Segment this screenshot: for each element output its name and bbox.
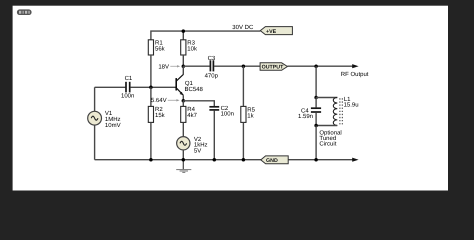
wire output node down to tuned circuit: [315, 66, 317, 97]
capacitor C1: [121, 75, 134, 99]
svg-text:1k: 1k: [247, 112, 254, 119]
node D output node: [242, 64, 246, 68]
flag GND: [261, 156, 288, 164]
label Optional Tuned Circuit: [319, 130, 341, 148]
svg-text:+VE: +VE: [266, 29, 277, 35]
wire top supply rail: [151, 31, 260, 40]
wire R5 bottom to ground rail: [242, 122, 244, 159]
svg-text:RF Output: RF Output: [341, 71, 369, 78]
source V1: [88, 87, 121, 159]
resistor R5: [241, 106, 256, 122]
wire emitter to C2: [183, 101, 214, 106]
wire R3 top stub: [182, 31, 184, 40]
wire C2 to ground rail: [213, 111, 215, 160]
svg-text:5.64V: 5.64V: [151, 97, 167, 104]
wire node C to C3: [183, 65, 210, 67]
wire R3 bottom to node C: [182, 55, 184, 66]
node emitter: [182, 99, 186, 103]
svg-text:100n: 100n: [121, 92, 134, 99]
svg-text:470p: 470p: [205, 72, 219, 79]
resistor R3: [181, 40, 198, 56]
svg-text:1.59n: 1.59n: [298, 113, 313, 120]
capacitor C2: [209, 105, 234, 118]
svg-text:15.9u: 15.9u: [344, 102, 359, 109]
rail junction dots: [149, 158, 153, 162]
node output tee: [314, 64, 318, 68]
flag OUTPUT: [260, 63, 287, 71]
svg-text:15k: 15k: [155, 112, 166, 119]
svg-text:GND: GND: [266, 158, 278, 164]
svg-text:C3: C3: [208, 55, 216, 62]
svg-text:10k: 10k: [187, 45, 198, 52]
annotation 5.64V: [151, 97, 180, 104]
wire C3 to OUTPUT flag: [214, 65, 260, 67]
svg-text:18V: 18V: [158, 63, 169, 70]
inductor L1: [316, 96, 359, 126]
wire bottom ground rail: [95, 159, 353, 161]
svg-text:5V: 5V: [194, 147, 201, 154]
svg-text:Circuit: Circuit: [319, 140, 336, 147]
source V2: [177, 136, 208, 160]
flag +VE: [260, 27, 292, 35]
wire V1 top to C1: [95, 86, 126, 88]
svg-text:C1: C1: [125, 75, 133, 82]
svg-text:30V DC: 30V DC: [232, 24, 254, 31]
resistor R1: [148, 40, 165, 56]
node E tuned circuit top: [314, 96, 318, 100]
wire node D down to R5: [242, 66, 244, 106]
transistor Q1: [176, 66, 203, 101]
wire node F to ground rail: [315, 126, 317, 160]
ground rail arrowhead: [352, 158, 358, 162]
svg-text:OUTPUT: OUTPUT: [262, 64, 285, 70]
corner badge: [17, 9, 32, 15]
RF output arrowhead: [352, 64, 358, 68]
node top rail junction: [182, 29, 186, 32]
svg-text:10mV: 10mV: [105, 122, 121, 129]
wire OUTPUT to RF arrow: [287, 65, 353, 67]
wire C1 to base: [130, 86, 176, 88]
svg-text:100n: 100n: [221, 110, 234, 117]
resistor R2: [148, 87, 165, 159]
capacitor C3: [205, 55, 219, 80]
annotation 18V: [158, 63, 180, 70]
svg-text:4k7: 4k7: [187, 112, 197, 119]
capacitor C4: [298, 98, 321, 126]
resistor R4: [181, 101, 198, 137]
node C collector node: [182, 64, 186, 68]
wire R1 bottom to node B: [150, 55, 152, 87]
node F tuned circuit bottom: [314, 124, 318, 128]
svg-text:56k: 56k: [155, 45, 166, 52]
ground symbol: [176, 160, 191, 173]
node B base node: [149, 86, 153, 90]
svg-text:BC548: BC548: [185, 86, 204, 93]
